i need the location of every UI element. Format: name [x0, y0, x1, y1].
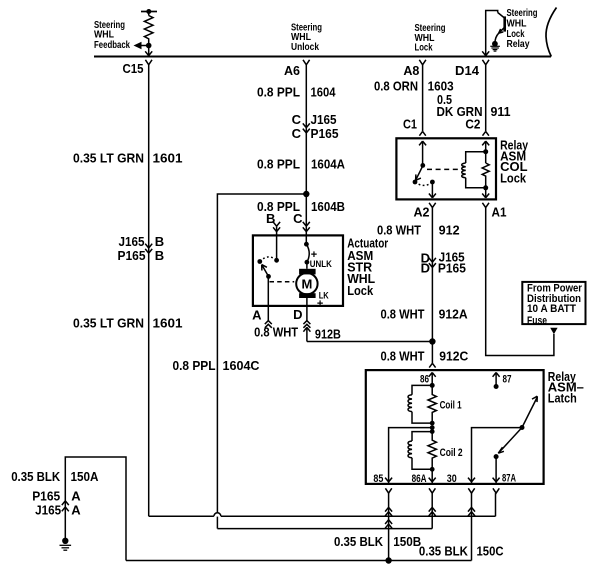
inductor: coil 1 winding	[408, 385, 432, 423]
svg-text:911: 911	[491, 104, 511, 119]
value label: 0.35 LT GRN 1601	[73, 151, 183, 166]
connector: actuator pin A double chevron	[265, 306, 272, 328]
label: Steering WHL Feedback	[94, 20, 130, 51]
relay K1: Relay ASM COL Lock box	[396, 138, 496, 199]
resistor: relay coil suppression resistor	[482, 141, 489, 188]
svg-text:912: 912	[439, 223, 460, 238]
connector: C2 female half	[483, 131, 489, 135]
pin labels A / D	[252, 307, 302, 323]
node: latch switch pivot dot	[520, 425, 525, 430]
svg-text:WHL: WHL	[94, 30, 114, 41]
value label: 0.8 WHT 912C	[381, 349, 469, 364]
node: coil 1 top dot	[430, 383, 435, 388]
wire: 1604C branch (left then down)	[217, 194, 306, 513]
svg-text:10 A BATT: 10 A BATT	[527, 303, 576, 315]
power source box: From Power Distribution 10 A BATT Fuse	[522, 282, 585, 324]
wire: A1 column to power feed	[486, 208, 554, 356]
node: coil 2 bottom dot	[430, 467, 435, 472]
connector: 86 female above latch relay	[429, 363, 435, 367]
svg-text:Latch: Latch	[548, 390, 577, 405]
transistor Q1: steering wheel lock relay driver	[482, 11, 505, 57]
node: actuator switch pivot dot	[266, 274, 271, 279]
svg-text:912A: 912A	[439, 306, 469, 321]
node: relay switch pivot dot	[420, 163, 425, 168]
connector J165/P165 pin D (in-line)	[421, 249, 466, 275]
relay K2: Relay ASM-Latch box	[366, 370, 544, 484]
ground G1: left ground symbol	[60, 538, 72, 551]
svg-text:D14: D14	[455, 63, 480, 78]
svg-text:Coil 1: Coil 1	[440, 399, 462, 411]
svg-text:J165: J165	[119, 234, 145, 249]
label: Steering WHL Unlock	[291, 23, 322, 53]
svg-text:150B: 150B	[393, 534, 421, 549]
pin C1 entry arrow (inside relay)	[419, 141, 426, 165]
splice chevrons: 85 wire onto line A	[385, 507, 392, 511]
svg-text:0.8 WHT: 0.8 WHT	[254, 325, 298, 340]
actuator U1: Actuator ASM STR WHL Lock box	[253, 235, 343, 306]
pin C2 entry arrow (inside relay)	[482, 141, 489, 145]
pin 86A exit arrow	[429, 478, 436, 482]
connector: A1 female below relay	[482, 203, 489, 208]
connector: actuator pin B double chevron	[273, 222, 280, 236]
label: + UNLK	[310, 249, 332, 269]
svg-text:Coil 2: Coil 2	[440, 447, 463, 459]
wire: 85 drop to ground lines	[388, 493, 390, 560]
node: 87A contact dot	[494, 454, 499, 459]
value label: 0.8 ORN 1603	[374, 78, 454, 93]
wire: 912C down to latch relay	[431, 342, 433, 364]
switch travel dotted arc (actuator)	[260, 257, 277, 262]
svg-text:Lock: Lock	[415, 43, 433, 54]
node: UNLK contact bottom dot	[305, 260, 310, 265]
wire: ground line C (150C)	[126, 560, 472, 562]
pin labels A2 / A1	[414, 205, 507, 220]
wire: branch to pin 85	[389, 428, 433, 484]
svg-text:C15: C15	[123, 61, 144, 76]
svg-text:J165: J165	[35, 503, 61, 518]
svg-text:A2: A2	[414, 205, 430, 220]
pin label B and C of actuator	[266, 211, 303, 226]
svg-text:0.35 BLK: 0.35 BLK	[419, 543, 469, 558]
wire: A2 column (WHT 912)	[431, 208, 433, 342]
svg-text:0.35 BLK: 0.35 BLK	[334, 534, 384, 549]
node: splice junction 1604 dot	[303, 191, 309, 197]
value label: 0.5 DK GRN 911	[437, 92, 511, 119]
splice chevrons: 30 wire onto line A	[468, 507, 475, 511]
value label: 0.35 LT GRN 1601 (lower)	[73, 316, 183, 331]
wire: ground line B (150B)	[217, 528, 432, 530]
label: Relay ASM- Latch	[548, 369, 584, 406]
svg-text:1604: 1604	[311, 85, 337, 100]
wire: contact to motor	[306, 262, 308, 269]
svg-text:0.35 LT GRN: 0.35 LT GRN	[73, 316, 144, 331]
resistor: coil 1	[428, 385, 436, 423]
wire: 1604C continues to line B	[216, 517, 218, 529]
svg-text:0.8 PPL: 0.8 PPL	[257, 156, 300, 171]
svg-text:85: 85	[373, 473, 383, 485]
connector: C1 female half	[419, 131, 425, 135]
svg-text:P165: P165	[438, 260, 466, 275]
wire: ground line A (150 splice)	[149, 515, 496, 517]
svg-text:Unlock: Unlock	[291, 42, 319, 53]
connector J165/P165 pin C (in-line)	[292, 112, 339, 141]
svg-text:150C: 150C	[477, 543, 505, 558]
wire: 912B with direction arrow	[303, 327, 310, 331]
svg-text:Lock: Lock	[500, 171, 527, 186]
wire: 86A drop to line B	[431, 493, 433, 528]
svg-text:0.35 BLK: 0.35 BLK	[11, 469, 61, 484]
svg-text:86A: 86A	[412, 473, 427, 485]
connector: 30 female below latch box	[468, 488, 474, 493]
value label: 0.35 BLK 150B	[334, 534, 421, 549]
node: feedback junction dot	[146, 43, 152, 49]
node C15: bus connector	[145, 60, 152, 65]
wire: pin 30 column to switch	[472, 428, 523, 484]
label: Steering WHL Lock Relay	[507, 8, 538, 50]
value label: 0.8 WHT 912A	[381, 306, 469, 321]
pin A2 exit arrow (inside relay)	[429, 182, 436, 198]
dashed mechanical link to motor	[270, 281, 295, 283]
svg-text:0.8 PPL: 0.8 PPL	[173, 358, 216, 373]
node: ground splice dot on line C	[385, 557, 391, 563]
pin 30 exit arrow	[468, 478, 475, 482]
wire: coil 2 to pin 86A	[431, 469, 433, 484]
ground: relay driver emitter ground	[490, 41, 500, 51]
svg-text:A: A	[71, 503, 81, 518]
node: relay contact dot (left)	[413, 180, 418, 185]
label: Steering WHL Lock	[415, 23, 446, 53]
node: actuator contact dot (B side)	[274, 258, 279, 263]
connector: 86A female below latch box	[429, 488, 435, 493]
svg-text:1603: 1603	[428, 78, 454, 93]
svg-text:0.8 PPL: 0.8 PPL	[257, 85, 300, 100]
connector: 85 female below latch box	[385, 488, 391, 493]
label: Actuator ASM STR WHL Lock	[347, 235, 388, 297]
wire: 30 drop to line C	[471, 493, 473, 560]
node A8: bus connector	[419, 60, 426, 65]
svg-text:30: 30	[447, 473, 457, 485]
switch: relay movable contact arm with arrowhead	[416, 166, 423, 181]
connector J165/P165 pin B (in-line)	[118, 234, 165, 263]
svg-text:1604A: 1604A	[311, 156, 346, 171]
svg-text:M: M	[301, 277, 312, 292]
svg-text:B: B	[155, 234, 164, 249]
value label: 0.8 WHT 912B	[254, 325, 341, 342]
value label: 0.8 WHT 912	[377, 223, 460, 238]
wire: motor to pin D	[306, 298, 308, 306]
svg-text:0.8 ORN: 0.8 ORN	[374, 78, 418, 93]
wire: 150A ground run (left)	[65, 457, 126, 561]
splice chevrons: 86A wire onto line A	[429, 507, 436, 511]
value label: 0.35 BLK 150C	[419, 543, 504, 558]
svg-text:1604B: 1604B	[311, 199, 345, 214]
node A6: bus connector	[303, 60, 310, 65]
connector: actuator pin D double chevron	[303, 306, 310, 342]
svg-text:A6: A6	[284, 63, 300, 78]
svg-text:C: C	[293, 211, 303, 226]
value label: 0.35 BLK 150A	[11, 469, 99, 484]
module outline curve (cut boundary)	[546, 8, 557, 57]
wire: 912B horizontal run to splice	[307, 341, 433, 343]
node: splice junction 912 dot	[429, 338, 435, 344]
svg-text:1604C: 1604C	[223, 358, 261, 373]
svg-text:A: A	[252, 308, 262, 323]
contact curve (UNLK)	[306, 244, 309, 262]
switch: latch relay movable contact (double arrow)	[498, 396, 537, 453]
svg-text:C1: C1	[403, 117, 417, 132]
wire: main feedback bus	[94, 56, 551, 58]
wire: D14 column (DK GRN 911)	[485, 65, 487, 132]
svg-text:150A: 150A	[71, 469, 100, 484]
node D14: bus connector	[482, 60, 489, 65]
inductor: coil 2 winding	[408, 432, 432, 470]
svg-text:D: D	[293, 307, 302, 322]
svg-text:0.8 WHT: 0.8 WHT	[381, 349, 425, 364]
svg-text:912B: 912B	[315, 326, 341, 341]
svg-text:Lock: Lock	[347, 283, 374, 298]
power feed triangle	[550, 328, 557, 335]
splice chevrons: 85 wire onto line B	[385, 520, 392, 524]
label: Relay ASM COL Lock	[500, 138, 529, 186]
svg-text:J165: J165	[311, 112, 337, 127]
svg-text:A: A	[71, 489, 81, 504]
svg-text:0.35 LT GRN: 0.35 LT GRN	[73, 151, 144, 166]
wire: C15 column (LT GRN 1601)	[148, 65, 150, 517]
svg-text:87: 87	[503, 373, 512, 385]
svg-text:P165: P165	[118, 248, 146, 263]
node: actuator contact dot (left)	[257, 259, 262, 264]
svg-text:Feedback: Feedback	[94, 40, 130, 51]
svg-text:D: D	[421, 260, 430, 275]
resistor: coil 2	[428, 432, 436, 470]
resistor: steering wheel feedback sensor	[141, 9, 157, 46]
svg-text:0.8 WHT: 0.8 WHT	[381, 306, 425, 321]
switch: actuator movable arm with arrowhead	[262, 265, 269, 277]
connector: 87A female below latch box	[493, 488, 499, 493]
wire: pin C inside actuator	[305, 235, 307, 244]
svg-text:1601: 1601	[153, 316, 183, 331]
svg-text:86: 86	[420, 373, 429, 385]
svg-text:C: C	[292, 126, 302, 141]
svg-text:B: B	[155, 248, 164, 263]
node: coil junction dots	[430, 421, 435, 426]
wire: 87A down	[495, 457, 497, 484]
connector J165/P165 pin A (in-line, chevrons up)	[32, 489, 81, 518]
node: relay contact dot (right, to A2)	[430, 180, 435, 185]
label: LK +	[317, 291, 329, 310]
inductor: relay coil winding	[462, 149, 488, 190]
node: UNLK contact top dot	[304, 242, 309, 247]
svg-text:P165: P165	[32, 489, 60, 504]
wire: pivot down to pin A	[267, 276, 269, 306]
wire: 87A drop to line A	[495, 493, 497, 516]
svg-text:1601: 1601	[153, 151, 183, 166]
pin 87A exit arrow	[493, 478, 500, 482]
svg-text:Relay: Relay	[507, 39, 530, 50]
pin 86 entry arrow (inside latch relay)	[429, 373, 436, 386]
motor M: actuator motor	[296, 269, 317, 298]
pin A1 exit arrow (inside relay)	[482, 188, 489, 198]
svg-text:87A: 87A	[502, 472, 516, 484]
svg-text:A1: A1	[492, 205, 507, 220]
value label: 0.8 PPL 1604	[257, 85, 336, 100]
value label: 0.8 PPL 1604B	[257, 199, 345, 214]
connector: A2 female below relay	[429, 203, 436, 208]
svg-text:Fuse: Fuse	[527, 315, 547, 327]
pin 87 stub with arrow	[493, 373, 500, 390]
svg-text:+: +	[317, 298, 323, 310]
value label: 0.8 PPL 1604C	[173, 358, 261, 373]
svg-text:P165: P165	[311, 126, 339, 141]
wire: resistor to bus with arrow	[145, 46, 152, 56]
wire: A6 column (PPL 1604)	[305, 65, 307, 236]
svg-text:912C: 912C	[439, 349, 469, 364]
svg-text:C: C	[292, 112, 302, 127]
wire: pin B inside actuator	[276, 235, 278, 260]
svg-text:WHL: WHL	[507, 18, 527, 29]
connector: actuator pin C double chevron	[303, 222, 310, 232]
svg-text:A8: A8	[403, 63, 419, 78]
wire: A8 column (ORN 1603)	[422, 65, 424, 132]
pin 85 exit arrow	[385, 478, 392, 482]
dashed mechanical link to coil	[427, 168, 460, 170]
svg-text:UNLK: UNLK	[310, 259, 332, 269]
wire: 1604C crossover hop over ground line	[214, 513, 221, 517]
switch travel dotted arc	[415, 182, 432, 185]
wire: feedback branch arrow (to Steering WHL Feedback)	[134, 42, 149, 49]
svg-text:C2: C2	[465, 117, 480, 132]
value label: 0.8 PPL 1604A	[257, 156, 346, 171]
